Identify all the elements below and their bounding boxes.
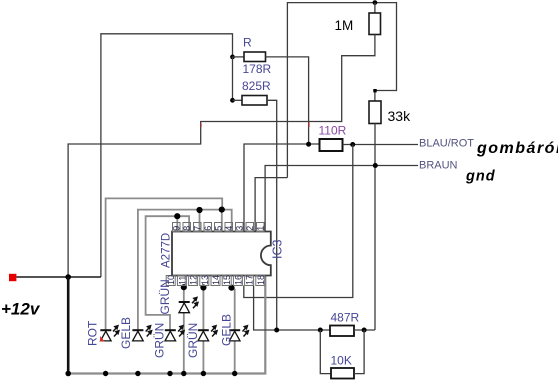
wire bottom bus	[68, 276, 265, 374]
svg-text:178R: 178R	[243, 62, 272, 76]
IC top pin numbers	[172, 226, 266, 231]
svg-text:BLAU/ROT: BLAU/ROT	[419, 138, 474, 150]
node BRAUN junction	[373, 163, 378, 168]
wire pin15 to GELB6 led	[232, 288, 235, 374]
svg-text:16: 16	[233, 275, 243, 285]
wire 110R right lead BLAU/ROT	[343, 144, 419, 146]
wire R right lead to vertical down	[266, 57, 309, 144]
node 33k top corner	[373, 89, 376, 92]
wire BRAUN horizontal to pin1	[265, 166, 418, 232]
wire +12v drop thick	[67, 277, 70, 374]
wire 10K right lead	[354, 330, 364, 374]
node BLAU/ROT junction	[350, 142, 355, 147]
wire 825R right lead down long vertical	[267, 100, 277, 330]
svg-text:15: 15	[222, 275, 232, 285]
LED D2 GELB	[132, 330, 143, 341]
wire hook ROT net	[106, 198, 223, 330]
resistor 110R	[320, 139, 343, 151]
LED D3 GRUEN	[165, 330, 176, 341]
LED D6 arrows	[243, 326, 249, 337]
node 825R left junction	[230, 98, 235, 103]
IC bottom pin numbers	[166, 275, 266, 285]
svg-text:BRAUN: BRAUN	[419, 160, 458, 172]
svg-text:1: 1	[256, 226, 266, 231]
svg-text:IC3: IC3	[271, 240, 285, 260]
resistor R1	[244, 52, 266, 62]
resistor 825R	[242, 96, 267, 106]
wire top-left horizontal	[101, 34, 233, 277]
node bus left	[65, 371, 71, 377]
wire 110R left lead from pin3 net	[244, 144, 320, 232]
wire +12v rail	[16, 276, 101, 278]
node pin9	[174, 213, 180, 219]
svg-text:33k: 33k	[388, 108, 412, 124]
wire 487R right lead	[354, 329, 375, 331]
svg-text:12: 12	[189, 275, 199, 285]
bus node GELB	[135, 371, 140, 376]
bus node ROT	[103, 371, 108, 376]
wire pin5 stub	[221, 210, 223, 232]
wire pin16 to BLAU/ROT vertical	[244, 145, 353, 298]
svg-text:9: 9	[172, 226, 182, 231]
resistor 1M	[369, 13, 381, 35]
wire 825R left lead	[233, 99, 243, 101]
svg-text:4: 4	[224, 226, 234, 231]
svg-text:3: 3	[235, 226, 245, 231]
svg-text:8: 8	[182, 226, 192, 231]
svg-text:ROT: ROT	[86, 320, 100, 346]
LED D1 arrows	[113, 326, 119, 337]
node 825R vertical at 487R line	[274, 328, 279, 333]
LED D5 arrows	[211, 326, 217, 337]
wire pin7 stub	[199, 210, 201, 232]
bus node GRUEN5	[201, 371, 206, 376]
LED D5 GRUEN	[198, 330, 209, 341]
node +12v junction	[65, 274, 71, 280]
op-amp IC3 body	[172, 232, 271, 276]
svg-text:13: 13	[200, 275, 210, 285]
wire pin2 net	[255, 178, 287, 232]
svg-text:A277D: A277D	[161, 233, 173, 268]
node pin13	[200, 284, 206, 290]
node pin15	[228, 285, 234, 291]
wire 1M top lead	[374, 3, 376, 13]
wire pin9 stub	[176, 216, 178, 231]
resistor 33k	[369, 101, 381, 124]
svg-text:7: 7	[193, 226, 203, 231]
resistor 487R	[330, 326, 354, 337]
svg-text:GELB: GELB	[119, 317, 133, 349]
wire 33k bottom long vertical to 487R right	[374, 124, 376, 331]
LED D3 arrows	[178, 326, 184, 337]
svg-text:1M: 1M	[335, 18, 354, 33]
wire pin17 to 487R	[254, 286, 330, 331]
resistor 10K	[331, 368, 354, 379]
LED D4 arrows	[192, 298, 198, 309]
red tick at corner near 200	[200, 124, 202, 128]
node 110R left junction	[306, 142, 311, 147]
wire between R and 825R left leads	[232, 57, 234, 100]
red tick at 308 crossing	[308, 123, 310, 128]
node 487R left	[318, 328, 323, 333]
bus node GRUEN3	[167, 371, 172, 376]
node pin7	[196, 207, 202, 213]
wire R left lead	[233, 56, 245, 58]
svg-text:14: 14	[211, 275, 221, 285]
svg-text:6: 6	[203, 226, 213, 231]
svg-text:GRÜN: GRÜN	[153, 323, 167, 358]
wire hook GELB net	[138, 210, 232, 330]
node 487R right	[362, 328, 367, 333]
bus node GELB6	[232, 371, 237, 376]
svg-text:+12v: +12v	[1, 300, 41, 319]
LED D1 ROT	[100, 330, 111, 341]
svg-text:17: 17	[245, 275, 255, 285]
LED D1 red mark	[100, 336, 105, 342]
svg-text:GRÜN: GRÜN	[158, 279, 172, 314]
IC bottom pin boxes	[166, 276, 265, 286]
wire 10K loop	[320, 330, 331, 374]
node R left junction	[230, 55, 235, 60]
+12v red square	[9, 274, 16, 281]
svg-text:GELB: GELB	[220, 314, 234, 346]
svg-text:11: 11	[177, 276, 187, 285]
svg-text:gnd: gnd	[465, 169, 496, 185]
wire hook GRUEN3 net	[146, 216, 190, 330]
svg-text:5: 5	[214, 226, 224, 231]
node pin5	[219, 207, 225, 213]
svg-text:10K: 10K	[331, 354, 352, 368]
node pin11	[181, 284, 187, 290]
node 1M top junction	[373, 0, 378, 5]
svg-text:2: 2	[245, 226, 255, 231]
svg-text:gombáról: gombáról	[476, 140, 558, 157]
wire pin11 to GRUEN4 led	[183, 286, 185, 374]
IC top pin boxes	[173, 223, 265, 232]
svg-text:487R: 487R	[331, 311, 360, 325]
svg-text:R: R	[243, 36, 252, 50]
svg-text:110R: 110R	[319, 124, 347, 138]
bus node GRUEN4	[181, 371, 186, 376]
LED D6 GELB	[229, 330, 240, 341]
LED D2 arrows	[146, 326, 152, 337]
wire pin13 to GRUEN5 led	[202, 286, 204, 374]
wire 1M bottom lead to +12v rail	[68, 35, 375, 278]
svg-text:825R: 825R	[242, 79, 271, 93]
svg-text:18: 18	[256, 275, 266, 285]
wire top net horizontal	[287, 3, 396, 178]
svg-text:GRÜN: GRÜN	[186, 323, 200, 358]
LED D4 GRUEN elevated	[179, 302, 190, 313]
